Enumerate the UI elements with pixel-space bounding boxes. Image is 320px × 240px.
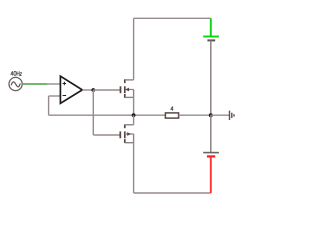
resistor R1 value 4 [165,106,178,118]
wire source to op-amp (green) [22,83,47,85]
wire upper mosfet source to output rail [133,97,135,115]
wire to upper mosfet gate [93,89,120,91]
node output junction dot [91,88,95,92]
wire feedback: - input down [48,96,50,115]
wire upper mosfet drain to top rail [133,18,135,80]
op-amp U1 [60,76,82,103]
battery V2 positive supply (green) [203,18,219,115]
node supply midpoint junction dot [209,113,213,117]
transistor Q2 lower PMOS [120,124,133,143]
wire output rail right segment [179,114,211,116]
wire op-amp + input lead [47,83,60,85]
wire gate feed vertical [92,90,94,135]
wire lower mosfet source down [133,143,135,193]
wire bottom rail [134,192,211,194]
wire lower mosfet drain to output rail [133,115,135,125]
transistor Q1 upper NMOS [121,79,134,98]
wire op-amp output [82,89,93,91]
node mosfet source junction dot [132,113,136,117]
ac source V1 40Hz [9,71,22,90]
battery V3 negative supply (red) [203,115,219,193]
wire to lower mosfet gate [93,134,120,136]
wire to ground [211,114,229,116]
wire op-amp - input lead [49,95,61,97]
wire output rail left segment [49,114,166,116]
ground [230,111,235,120]
wire top rail [134,17,211,19]
